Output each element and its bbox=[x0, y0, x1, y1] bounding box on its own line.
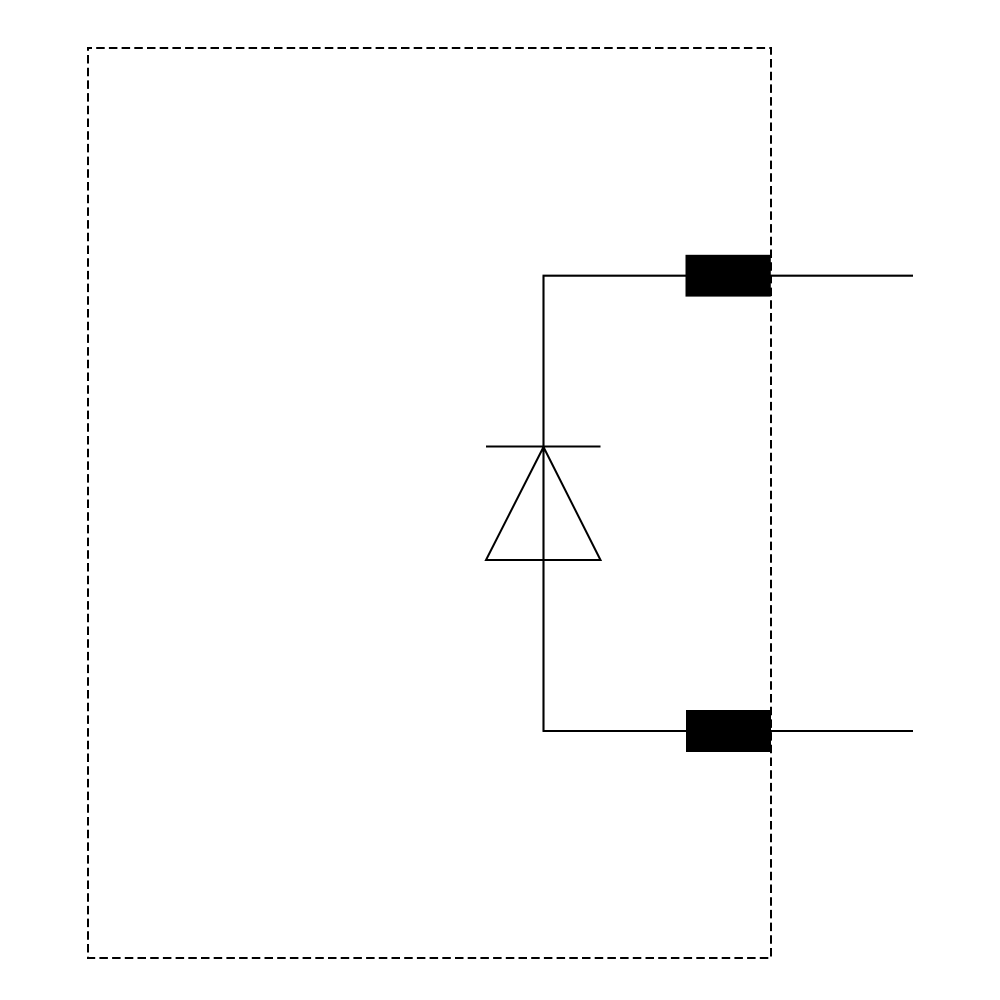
wire (vertical, node A to node B through diode) bbox=[542, 276, 544, 731]
wire (bottom horizontal, to right lead) bbox=[543, 730, 914, 732]
diode anode triangle bbox=[486, 447, 601, 560]
terminal pad (bottom) bbox=[686, 710, 771, 752]
terminal pad (top) bbox=[686, 255, 771, 297]
dashed enclosure (module boundary) bbox=[88, 48, 771, 958]
wire (top horizontal, to right lead) bbox=[543, 275, 914, 277]
diode cathode bar bbox=[486, 446, 601, 448]
